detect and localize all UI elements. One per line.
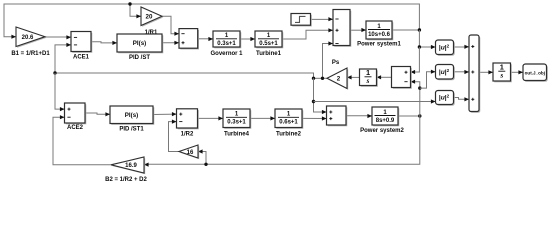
svg-text:2: 2 — [337, 76, 341, 83]
svg-text:Governor 1: Governor 1 — [210, 51, 243, 57]
svg-text:0.3s+1: 0.3s+1 — [227, 120, 246, 126]
svg-text:out.J_obj: out.J_obj — [525, 70, 545, 75]
svg-text:16: 16 — [187, 150, 194, 156]
svg-text:Turbine1: Turbine1 — [256, 51, 282, 57]
svg-text:Turbine2: Turbine2 — [276, 132, 302, 138]
svg-text:16.9: 16.9 — [125, 163, 137, 169]
svg-text:Turbine4: Turbine4 — [224, 132, 250, 138]
svg-text:1/R2: 1/R2 — [181, 132, 194, 138]
svg-text:Power system2: Power system2 — [360, 128, 404, 134]
svg-text:Ps: Ps — [332, 60, 340, 66]
svg-text:10s+0.6: 10s+0.6 — [368, 32, 391, 38]
svg-text:PID /ST: PID /ST — [129, 55, 150, 61]
svg-text:0.6s+1: 0.6s+1 — [279, 120, 298, 126]
svg-text:ACE2: ACE2 — [67, 125, 84, 131]
svg-text:B1 = 1/R1+D1: B1 = 1/R1+D1 — [11, 51, 50, 57]
svg-text:0.3s+1: 0.3s+1 — [217, 41, 236, 47]
svg-text:8s+0.9: 8s+0.9 — [376, 118, 395, 124]
svg-text:PI(s): PI(s) — [125, 112, 138, 119]
svg-text:Power system1: Power system1 — [357, 42, 401, 48]
svg-text:B2 = 1/R2 + D2: B2 = 1/R2 + D2 — [105, 177, 147, 183]
svg-text:PID /ST1: PID /ST1 — [119, 127, 144, 133]
svg-text:0.5s+1: 0.5s+1 — [259, 41, 278, 47]
svg-text:s: s — [499, 71, 503, 80]
svg-text:s: s — [366, 76, 370, 85]
svg-text:20.6: 20.6 — [22, 35, 34, 41]
svg-text:ACE1: ACE1 — [73, 55, 90, 61]
svg-text:PI(s): PI(s) — [133, 40, 146, 47]
svg-text:20: 20 — [146, 14, 153, 21]
